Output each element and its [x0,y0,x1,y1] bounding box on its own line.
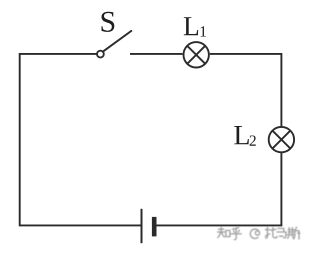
lamp L2 circle [269,127,294,152]
wire: right side below L2 + bottom-right segment (to battery) [157,153,282,226]
switch S knife contact circle [97,51,104,58]
lamp L2 cross [272,131,290,149]
watermark glyph 乎 [231,227,241,239]
battery positive plate (long thin) [141,209,143,243]
watermark glyph 托 [265,227,277,238]
switch S arm (open blade) [103,31,131,51]
watermark glyph 斯 [287,227,300,239]
label L1 [184,17,198,35]
wire: top right segment + right side down to L2 [210,54,282,126]
wire: top middle segment (switch to L1) [130,53,183,55]
lamp L1 circle [184,42,209,67]
watermark glyph @ [250,229,259,238]
battery negative plate (short thick) [152,217,157,237]
wire: top-left segment, left side, bottom-left segment (to battery) [20,54,141,226]
lamp L1 cross [187,46,205,64]
watermark: 知乎 @托马斯 (hand drawn, grey) [218,227,300,239]
label L2 [234,126,249,144]
watermark glyph 知 [218,227,230,237]
watermark glyph 马 [277,228,286,238]
label S [102,12,115,32]
